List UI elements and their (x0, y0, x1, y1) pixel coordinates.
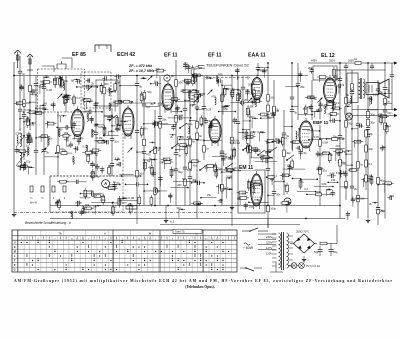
svg-text:4A: 4A (354, 58, 357, 61)
svg-text:EF 11: EF 11 (208, 53, 222, 59)
svg-text:0,1M: 0,1M (373, 92, 379, 96)
svg-text:10n: 10n (103, 139, 108, 143)
svg-text:470: 470 (336, 171, 341, 175)
svg-text:0,25: 0,25 (329, 171, 335, 175)
svg-text:EL 12: EL 12 (321, 53, 335, 59)
svg-text:0,2: 0,2 (190, 104, 194, 108)
svg-text:0,25: 0,25 (206, 108, 212, 112)
mains transformer primary (279, 233, 281, 268)
svg-text:20k: 20k (64, 79, 69, 83)
svg-text:30k: 30k (213, 165, 218, 169)
svg-text:12p: 12p (40, 79, 45, 83)
wire vertical v27 (236, 76, 240, 170)
dashed drop (49, 176, 51, 212)
svg-text:1M: 1M (346, 102, 350, 106)
svg-text:70p: 70p (174, 107, 179, 111)
svg-text:10n: 10n (355, 197, 360, 201)
svg-text:EBF 11: EBF 11 (313, 120, 329, 125)
output transformer winding (359, 78, 365, 99)
svg-text:30p: 30p (369, 132, 374, 136)
svg-text:10k: 10k (336, 77, 341, 81)
svg-text:0,1: 0,1 (51, 103, 55, 107)
svg-text:0,5M: 0,5M (199, 92, 205, 96)
svg-text:6,8k: 6,8k (248, 105, 254, 109)
svg-text:EAA 11: EAA 11 (248, 53, 266, 59)
svg-text:0,1: 0,1 (118, 74, 122, 78)
oscillator components (86, 74, 124, 113)
mains transformer secondary (287, 233, 289, 268)
wire vertical bus v15 (390, 63, 394, 110)
svg-text:470: 470 (83, 193, 88, 197)
wire vertical bus v11 (350, 70, 358, 200)
svg-text:10n: 10n (270, 96, 275, 100)
svg-text:200: 200 (187, 135, 192, 139)
svg-text:0,5M: 0,5M (16, 132, 22, 136)
svg-text:30k: 30k (323, 104, 328, 108)
tap wires (258, 233, 276, 235)
svg-text:15k: 15k (91, 129, 96, 133)
bottom row components (70, 193, 224, 218)
svg-text:Bezeichnete Schalterstellung: Bezeichnete Schalterstellung : U (25, 221, 72, 225)
svg-text:0,1: 0,1 (284, 136, 288, 140)
wire vertical bus v14 (383, 62, 392, 219)
svg-text:10k: 10k (171, 168, 176, 172)
tie wires (19, 67, 392, 200)
wire chassis dash-dot (14, 212, 232, 214)
wire vertical v36 (356, 105, 365, 219)
antenna coil components (14, 83, 57, 174)
wire vertical v22 (158, 76, 168, 206)
EM11 indicator box (238, 170, 265, 213)
svg-text:0,2: 0,2 (173, 124, 177, 128)
svg-text:6,8k: 6,8k (321, 182, 327, 186)
bus junction dots (13, 62, 386, 219)
svg-text:20k: 20k (276, 193, 281, 197)
svg-text:0,25: 0,25 (230, 88, 236, 92)
svg-text:200: 200 (356, 139, 361, 143)
svg-text:10k: 10k (326, 188, 331, 192)
svg-text:0,1M: 0,1M (234, 141, 240, 145)
svg-text:15k: 15k (89, 189, 94, 193)
mesh wires (55, 79, 345, 204)
frame aerial coil 2 (20, 152, 22, 166)
svg-text:100p: 100p (270, 206, 276, 210)
svg-text:10k: 10k (178, 81, 183, 85)
svg-text:M: M (14, 251, 16, 254)
svg-text:6,8k: 6,8k (115, 157, 121, 161)
wire vertical bus v13 (376, 80, 385, 225)
svg-text:10k: 10k (62, 95, 67, 99)
svg-text:445V: 445V (311, 59, 317, 63)
frame aerial coil 1 (20, 133, 22, 147)
svg-text:10k: 10k (266, 141, 271, 145)
svg-text:30p: 30p (387, 182, 392, 186)
svg-text:0,5M: 0,5M (258, 130, 264, 134)
corner wire b (62, 58, 72, 68)
svg-text:15k: 15k (331, 178, 336, 182)
svg-text:0,1: 0,1 (169, 194, 173, 198)
wire vertical v17 (65, 76, 73, 112)
svg-text:U: U (14, 242, 16, 245)
wire vertical v28 (249, 110, 256, 170)
svg-text:30k: 30k (154, 186, 159, 190)
dial cord arrow 2 (394, 114, 398, 117)
IF1 components (140, 62, 207, 115)
dial lamp (346, 113, 353, 120)
wire vertical bus v3 (154, 110, 161, 206)
AM coil-pack dashed box (50, 176, 123, 212)
audio EM11 components (230, 111, 301, 169)
rail cap 2 (370, 65, 374, 67)
filter cap 50u (1) (318, 249, 323, 251)
svg-text:30k: 30k (64, 131, 69, 135)
ground main (165, 219, 167, 221)
svg-text:15k: 15k (233, 118, 238, 122)
wire vertical bus v4 (183, 80, 193, 206)
wire vertical v31 (282, 110, 291, 195)
rail cap 1 (344, 65, 348, 67)
svg-text:15k: 15k (382, 145, 387, 149)
svg-text:10n: 10n (264, 114, 269, 118)
svg-text:25p: 25p (333, 134, 338, 138)
mixer grid components (57, 110, 127, 181)
svg-text:50p: 50p (178, 170, 183, 174)
svg-text:200: 200 (177, 183, 182, 187)
svg-text:10n: 10n (143, 126, 148, 130)
wire vertical v39 (22, 76, 31, 160)
dashed link (50, 175, 123, 177)
svg-text:70p: 70p (42, 135, 47, 139)
svg-text:~ 60W: ~ 60W (243, 246, 254, 250)
mid components (140, 115, 235, 206)
svg-text:100p: 100p (25, 118, 31, 122)
svg-text:10n: 10n (316, 108, 321, 112)
svg-text:Wg: Wg (128, 202, 132, 206)
svg-text:0,2: 0,2 (336, 148, 340, 152)
svg-text:25p: 25p (308, 66, 313, 70)
svg-text:40p: 40p (79, 136, 84, 140)
svg-text:0,1: 0,1 (330, 192, 334, 196)
tube label EM 11 (239, 165, 255, 171)
svg-text:200: 200 (94, 101, 99, 105)
svg-text:0,25: 0,25 (314, 135, 320, 139)
svg-text:15k: 15k (62, 149, 67, 153)
svg-text:470: 470 (335, 144, 340, 148)
svg-text:0,1: 0,1 (82, 144, 86, 148)
tube V4 EF11 (209, 116, 221, 146)
svg-text:30p: 30p (104, 82, 109, 86)
svg-text:10n: 10n (114, 140, 119, 144)
svg-text:250Ω 70°C: 250Ω 70°C (296, 230, 309, 234)
svg-text:ZF₁ = 472 kHz: ZF₁ = 472 kHz (128, 64, 152, 68)
EL12 output stage box (313, 66, 337, 80)
wire vertical bus v8 (266, 63, 277, 228)
svg-text:350V: 350V (329, 59, 335, 63)
svg-text:(Telefunken Opus).: (Telefunken Opus). (185, 285, 215, 289)
svg-text:0,2: 0,2 (304, 187, 308, 191)
svg-text:40p: 40p (369, 147, 374, 151)
svg-text:470: 470 (211, 95, 216, 99)
tube V6 EBF11 (299, 118, 313, 151)
svg-text:240V: 240V (266, 235, 272, 239)
svg-text:MV: MV (171, 75, 175, 78)
HT wire to bridge (315, 243, 318, 245)
svg-text:10n: 10n (237, 88, 242, 92)
wire vertical v33 (310, 80, 318, 120)
svg-text:40p: 40p (35, 110, 40, 114)
coil-pack inner components (55, 180, 120, 216)
svg-text:Tafel 72₂: Tafel 72₂ (175, 230, 185, 234)
band switch contacts (30, 186, 66, 205)
svg-text:10k: 10k (390, 194, 395, 198)
antenna 2 (27, 54, 33, 72)
svg-text:30p: 30p (78, 201, 83, 205)
FM front-end dashed box (38, 69, 85, 112)
svg-text:10n: 10n (48, 136, 53, 140)
svg-text:200: 200 (303, 107, 308, 111)
svg-text:15k: 15k (229, 187, 234, 191)
ferrite rod (26, 139, 33, 141)
title TELEFUNKEN Opus 52 (205, 62, 253, 69)
tube V2 ECH42 (122, 105, 134, 139)
wire vertical v26 (220, 80, 229, 206)
mains switch (242, 228, 268, 232)
wire vertical v32 (296, 63, 305, 120)
agc line components (298, 148, 344, 197)
wire dial 1 (352, 109, 394, 111)
svg-text:10n: 10n (359, 124, 364, 128)
svg-text:0,1M: 0,1M (230, 148, 236, 152)
wire vertical bus v10 (338, 63, 347, 219)
svg-text:12p: 12p (26, 160, 31, 164)
svg-text:15k: 15k (207, 193, 212, 197)
drop wires to chassis (137, 206, 268, 229)
svg-text:20k: 20k (253, 180, 258, 184)
svg-text:10k: 10k (180, 136, 185, 140)
svg-text:30k: 30k (336, 68, 341, 72)
svg-text:0,1: 0,1 (369, 162, 373, 166)
svg-text:TELEFUNKEN Opus 52: TELEFUNKEN Opus 52 (206, 63, 249, 68)
coupling coil circle (164, 75, 170, 81)
svg-text:EM 11: EM 11 (239, 165, 253, 171)
smoothing resistor (320, 242, 327, 245)
svg-text:30p: 30p (370, 120, 375, 124)
svg-text:1M: 1M (257, 90, 261, 94)
svg-text:200: 200 (248, 82, 253, 86)
svg-text:10n: 10n (226, 156, 231, 160)
wire vertical v23 (174, 60, 183, 206)
rectifier bridge (294, 234, 315, 253)
svg-text:470: 470 (111, 103, 116, 107)
svg-text:40p: 40p (148, 165, 153, 169)
node HT rail arrow (394, 61, 398, 64)
svg-text:20k: 20k (275, 137, 280, 141)
svg-text:1M: 1M (94, 163, 98, 167)
svg-text:0,5M: 0,5M (177, 113, 183, 117)
svg-text:20k: 20k (317, 190, 322, 194)
wire vertical bus v6 (230, 76, 240, 206)
ground wire PSU (290, 243, 294, 245)
wire vertical v21 (118, 76, 122, 130)
mains transformer core (281, 232, 283, 270)
svg-text:50μ: 50μ (333, 250, 338, 254)
svg-text:0,1M: 0,1M (46, 88, 52, 92)
svg-text:0,1M: 0,1M (97, 136, 103, 140)
svg-text:12p: 12p (218, 72, 223, 76)
filter cap 50u (2) (329, 249, 334, 251)
svg-text:70p: 70p (45, 75, 50, 79)
svg-text:50p: 50p (147, 90, 152, 94)
wire left vertical bus (13, 62, 15, 213)
svg-text:40p: 40p (270, 111, 275, 115)
wire vertical v25 (202, 76, 212, 160)
svg-text:G: G (14, 269, 16, 272)
heater wires (288, 265, 291, 267)
svg-text:220V: 220V (266, 241, 272, 245)
ratio detector dashed line (122, 130, 124, 176)
svg-text:0,1: 0,1 (76, 96, 80, 100)
wire lower bus (50, 218, 345, 220)
wire vertical v29 (256, 63, 266, 76)
svg-text:100p: 100p (249, 115, 255, 119)
svg-text:40p: 40p (286, 151, 291, 155)
pickup jack L (284, 198, 291, 205)
wire vertical v24 (188, 96, 197, 206)
svg-text:470: 470 (183, 62, 188, 66)
rail fuse (355, 62, 361, 65)
antenna 1 (14, 50, 21, 68)
svg-text:30k: 30k (307, 95, 312, 99)
wire vertical bus v2 (142, 96, 151, 206)
wire vertical v38 (42, 76, 52, 175)
dashed tap line (205, 77, 250, 79)
FM tuner components (40, 75, 93, 115)
wire vertical v37 (34, 76, 43, 175)
wire vertical bus v7 (241, 76, 250, 140)
svg-text:470: 470 (146, 152, 151, 156)
fuse box (126, 206, 137, 209)
svg-text:0,2: 0,2 (336, 101, 340, 105)
tube V1 EF85 (71, 107, 84, 140)
oscillator dashed box (81, 72, 111, 108)
svg-text:15k: 15k (196, 202, 201, 206)
svg-text:15k: 15k (162, 118, 167, 122)
svg-text:70p: 70p (74, 147, 79, 151)
svg-text:1M: 1M (43, 101, 47, 105)
svg-text:TA: TA (58, 232, 62, 236)
svg-text:100p: 100p (187, 122, 193, 126)
svg-text:6,8k: 6,8k (82, 205, 88, 209)
svg-text:K: K (14, 246, 16, 249)
svg-text:0,1: 0,1 (108, 87, 112, 91)
corner wire a (42, 66, 54, 72)
wire bottom bus (50, 205, 340, 207)
svg-text:EF 85: EF 85 (72, 52, 86, 58)
svg-text:12p: 12p (387, 111, 392, 115)
svg-text:50μ: 50μ (314, 250, 319, 254)
wire speaker top (340, 69, 385, 71)
dial cord arrow 1 (394, 108, 398, 111)
svg-text:12p: 12p (119, 119, 124, 123)
wire vertical bus v12 (366, 63, 375, 219)
mains plug switch (246, 268, 254, 271)
IF transformer box 1 (96, 80, 118, 106)
svg-text:30k: 30k (319, 167, 324, 171)
svg-text:A: A (104, 232, 106, 236)
dipole loop (57, 61, 66, 69)
svg-text:ZF₂ = 10,7 MHz: ZF₂ = 10,7 MHz (128, 69, 154, 73)
svg-text:1M: 1M (57, 198, 61, 202)
svg-text:0,5M: 0,5M (226, 174, 232, 178)
svg-text:40p: 40p (156, 67, 161, 71)
wire vertical v20 (110, 108, 119, 176)
svg-text:100p: 100p (259, 153, 265, 157)
svg-text:70p: 70p (384, 125, 389, 129)
tube label EBF 11 (313, 120, 330, 125)
svg-text:1M: 1M (116, 80, 120, 84)
tube V3 EF11 (162, 81, 174, 113)
output transformer box (347, 73, 358, 103)
svg-text:30p: 30p (141, 76, 146, 80)
svg-text:70p: 70p (192, 164, 197, 168)
svg-text:470: 470 (322, 151, 327, 155)
wire vertical v35 (345, 70, 353, 200)
svg-text:6,3: 6,3 (170, 220, 175, 224)
wire vertical v19 (103, 80, 111, 130)
wire HT rail right (308, 62, 394, 64)
svg-text:50p: 50p (89, 117, 94, 121)
svg-text:50p: 50p (348, 122, 353, 126)
svg-text:200: 200 (192, 88, 197, 92)
wire vertical bus v5 (195, 76, 204, 219)
wire vertical v34 (318, 100, 328, 206)
IF2 detector components (206, 67, 266, 117)
tube V7 EL12 (324, 75, 337, 105)
right column components (343, 92, 395, 220)
tube V5 EAA11 (251, 75, 262, 103)
wire vertical v30 (272, 80, 281, 206)
speaker (366, 79, 389, 98)
ground right (367, 219, 369, 221)
svg-text:1M: 1M (199, 66, 203, 70)
svg-text:25p: 25p (249, 204, 254, 208)
switch blades (109, 115, 294, 171)
svg-text:Wv W: Wv W (30, 201, 37, 205)
svg-text:10n: 10n (16, 148, 21, 152)
lower mid components (231, 163, 291, 212)
mains sine symbol (244, 243, 250, 245)
svg-text:110V: 110V (266, 252, 272, 256)
wire vertical bus v1 (135, 76, 144, 206)
wire vertical v18 (94, 106, 104, 176)
svg-text:50p: 50p (42, 106, 47, 110)
pilot lamp 2 (299, 263, 305, 269)
svg-text:HC-F0μ: HC-F0μ (90, 175, 100, 179)
pickup jack A (102, 180, 110, 188)
svg-text:10n: 10n (110, 187, 115, 191)
svg-text:100p: 100p (100, 198, 106, 202)
svg-text:6,8k: 6,8k (202, 117, 208, 121)
wire heater bus (160, 224, 300, 226)
wire dial 2 (352, 115, 394, 117)
svg-text:100p: 100p (108, 164, 114, 168)
svg-text:10n: 10n (139, 172, 144, 176)
wire vertical ant lead b (29, 72, 32, 130)
folded dipole (95, 45, 111, 52)
svg-text:ECH 42: ECH 42 (117, 52, 135, 58)
svg-text:6,8k: 6,8k (29, 123, 35, 127)
svg-text:20k: 20k (300, 85, 305, 89)
